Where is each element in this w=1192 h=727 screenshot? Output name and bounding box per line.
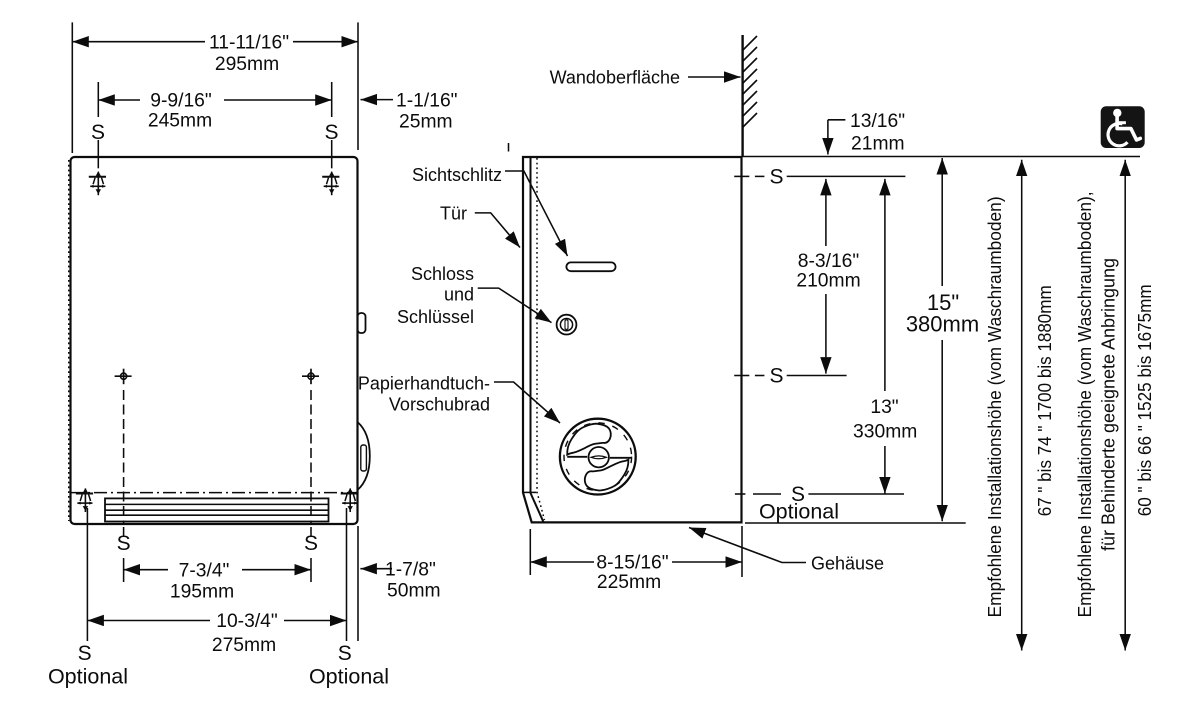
- svg-text:67 " bis 74 " 1700 bis 1880mm: 67 " bis 74 " 1700 bis 1880mm: [1035, 285, 1055, 516]
- dimension 1-1/16 arrow: [361, 99, 394, 101]
- wall line: [741, 35, 743, 157]
- svg-text:und: und: [444, 285, 474, 305]
- svg-text:13/16": 13/16": [850, 111, 905, 132]
- svg-text:295mm: 295mm: [215, 54, 279, 75]
- dimension line 10-3/4: [87, 620, 210, 622]
- dimension line 8-15/16: [530, 561, 594, 563]
- svg-text:Optional: Optional: [759, 500, 839, 524]
- door front inner line: [531, 157, 544, 522]
- svg-text:Optional: Optional: [309, 665, 389, 689]
- dimension 15 vertical: [941, 158, 943, 286]
- svg-text:Schlüssel: Schlüssel: [397, 307, 474, 327]
- Sichtschlitz leader: [505, 171, 568, 256]
- bottom reference line: [745, 522, 966, 524]
- svg-text:Schloss: Schloss: [411, 264, 474, 284]
- dimension line 11-11/16: [72, 41, 205, 43]
- sight slit: [566, 262, 615, 271]
- tick above Sichtschlitz leader: [508, 143, 510, 152]
- svg-text:21mm: 21mm: [851, 134, 905, 155]
- installation height arrow 1: [1021, 160, 1023, 400]
- dimension 1-7/8 arrow: [360, 568, 392, 570]
- svg-text:210mm: 210mm: [796, 270, 860, 291]
- dimension 13 vertical: [884, 179, 886, 391]
- svg-text:Vorschubrad: Vorschubrad: [389, 394, 490, 414]
- svg-text:S: S: [769, 166, 783, 189]
- S line 1: [734, 175, 749, 177]
- chamfer tick: [523, 491, 536, 493]
- Gehaeuse leader: [689, 528, 806, 563]
- svg-text:11-11/16": 11-11/16": [209, 33, 289, 54]
- svg-text:1-7/8": 1-7/8": [385, 559, 436, 580]
- svg-text:10-3/4": 10-3/4": [216, 611, 278, 632]
- dashed drop line from left cross: [123, 390, 125, 524]
- optional hole cross right: [302, 369, 319, 385]
- bottom: extension line from bottom-left screw: [86, 508, 88, 641]
- lock tab on right edge: [358, 313, 366, 333]
- svg-text:1-1/16": 1-1/16": [396, 90, 458, 111]
- svg-text:25mm: 25mm: [399, 112, 453, 133]
- dash-dot line at towel slot level: [71, 492, 357, 494]
- svg-text:380mm: 380mm: [906, 311, 979, 336]
- extension of cabinet right edge: [357, 526, 359, 641]
- svg-text:275mm: 275mm: [212, 635, 276, 656]
- bottom mounting screw left: [76, 488, 93, 512]
- installation height arrow 2: [1124, 160, 1126, 400]
- svg-text:Optional: Optional: [48, 665, 128, 689]
- svg-text:S: S: [338, 642, 352, 665]
- S line 3: [735, 493, 746, 495]
- Schloss leader: [478, 288, 552, 323]
- svg-text:für Behinderte geeignete Anbri: für Behinderte geeignete Anbringung: [1099, 258, 1119, 551]
- tick right cross line: [310, 558, 312, 582]
- svg-text:245mm: 245mm: [148, 111, 212, 132]
- dimension line 7-3/4: [124, 569, 168, 571]
- lock cylinder: [557, 315, 577, 335]
- Wandoberflaeche arrow: [688, 76, 741, 78]
- svg-text:S: S: [304, 532, 318, 555]
- svg-text:S: S: [78, 642, 92, 665]
- svg-text:Papierhandtuch-: Papierhandtuch-: [358, 373, 490, 393]
- svg-text:225mm: 225mm: [597, 572, 661, 593]
- front cabinet box: [71, 157, 358, 524]
- svg-text:Empfohlene Installationshöhe (: Empfohlene Installationshöhe (vom Waschr…: [985, 196, 1005, 617]
- dimension 11-11/16 extension lines: [71, 22, 73, 153]
- handicap icon: [1101, 106, 1145, 148]
- top reference line: [742, 156, 1141, 158]
- towel slot: [105, 498, 329, 521]
- side cabinet outline: [523, 157, 742, 522]
- bottom mounting screw right: [341, 488, 358, 512]
- top mounting screw left: [89, 171, 106, 195]
- svg-text:8-15/16": 8-15/16": [596, 553, 668, 574]
- tick left cross line: [123, 558, 125, 582]
- optional hole cross left: [115, 369, 132, 385]
- svg-text:S: S: [769, 365, 783, 388]
- svg-text:Wandoberfläche: Wandoberfläche: [550, 67, 680, 87]
- feed wheel: [560, 419, 636, 495]
- svg-text:13": 13": [870, 397, 898, 418]
- dimension 8-3/16 vertical: [825, 179, 827, 246]
- svg-text:S: S: [117, 532, 131, 555]
- svg-text:Tür: Tür: [440, 204, 467, 224]
- dotted door liner: [537, 158, 545, 520]
- svg-text:330mm: 330mm: [853, 422, 917, 443]
- svg-text:Sichtschlitz: Sichtschlitz: [412, 165, 502, 185]
- Papierhandtuch leader: [494, 382, 560, 423]
- feed wheel bulge on right edge: [358, 422, 370, 490]
- svg-text:7-3/4": 7-3/4": [179, 560, 230, 581]
- dimension line 9-9/16: [98, 99, 140, 101]
- svg-text:S: S: [91, 121, 105, 144]
- dimension 8-15/16 extension right: [741, 526, 743, 577]
- svg-text:50mm: 50mm: [387, 581, 441, 602]
- dimension 8-15/16 extension left: [529, 529, 531, 575]
- wall hatching: [743, 36, 757, 127]
- svg-text:9-9/16": 9-9/16": [150, 91, 212, 112]
- dimension 13/16: [828, 119, 846, 121]
- svg-text:S: S: [324, 121, 338, 144]
- dimension 9-9/16 extension lines: [97, 82, 99, 117]
- svg-text:Empfohlene Installationshöhe (: Empfohlene Installationshöhe (vom Waschr…: [1075, 191, 1095, 617]
- S line 2: [734, 375, 749, 377]
- dotted hinge line left edge: [68, 160, 70, 521]
- Tuer leader: [475, 213, 520, 248]
- svg-text:60 " bis 66 " 1525 bis 1675mm: 60 " bis 66 " 1525 bis 1675mm: [1135, 284, 1155, 516]
- svg-text:8-3/16": 8-3/16": [798, 251, 860, 272]
- extension from bottom-right screw: [346, 508, 348, 641]
- top mounting screw right: [322, 171, 339, 195]
- svg-text:195mm: 195mm: [170, 582, 234, 603]
- svg-text:Gehäuse: Gehäuse: [811, 553, 884, 573]
- dashed drop line from right cross: [310, 390, 312, 524]
